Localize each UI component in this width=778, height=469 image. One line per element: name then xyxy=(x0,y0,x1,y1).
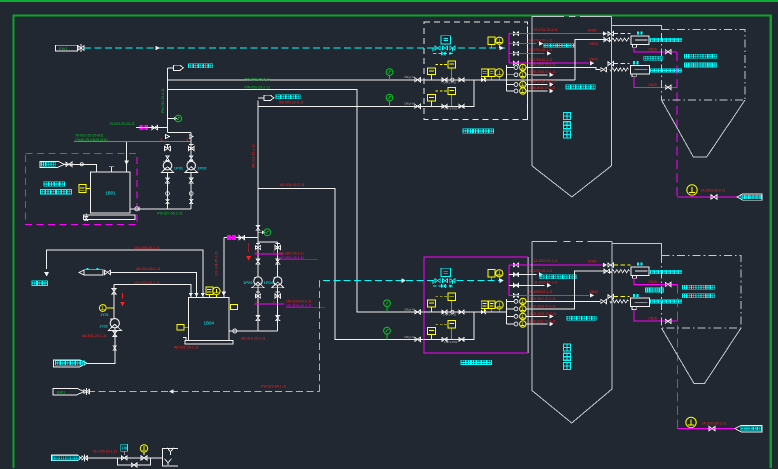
inlet line 3 xyxy=(114,285,191,298)
lance 2 drain (magenta) xyxy=(634,77,677,88)
white row8 stub xyxy=(533,90,548,92)
svg-text:AB-319-25-2-J1: AB-319-25-2-J1 xyxy=(241,336,266,340)
check valves above pumps xyxy=(190,133,192,162)
side instrument right xyxy=(230,305,237,310)
flag steam source (cyan filled) xyxy=(52,455,82,461)
side instrument left xyxy=(177,325,184,330)
svg-text:3UB-3208-70-1-J1: 3UB-3208-70-1-J1 xyxy=(530,304,556,308)
panel main pipe row 1 xyxy=(424,79,506,81)
svg-text:3UB-3011-70-2-J1: 3UB-3011-70-2-J1 xyxy=(530,86,556,90)
recirc riser into tank 1B04 xyxy=(223,238,225,298)
dosing hand pump instrument xyxy=(107,307,114,309)
magenta row1 to lance 1 xyxy=(509,33,605,35)
flow instrument cluster xyxy=(481,301,488,309)
svg-text:78-L005-Zb-1-J1: 78-L005-Zb-1-J1 xyxy=(93,450,118,454)
svg-text:1AP1-P02: 1AP1-P02 xyxy=(444,340,458,344)
lance 4 drain (magenta) xyxy=(634,309,678,321)
white outlet manifold xyxy=(506,299,508,324)
panel enclosure xyxy=(424,22,528,120)
filter box D row2 xyxy=(448,320,456,327)
panel enclosure xyxy=(424,257,528,353)
cyan lance 2 caption xyxy=(651,69,682,72)
flag to 3# boiler dosing xyxy=(174,65,184,70)
level cluster on tank 1B04 xyxy=(206,287,213,295)
green inline instrument pipe D xyxy=(384,327,391,334)
flag EW source (top left) xyxy=(56,45,78,51)
svg-text:DN50: DN50 xyxy=(588,260,597,264)
fill pipe to tank 1B01 xyxy=(64,164,96,172)
svg-text:PW-050-25-2-J1: PW-050-25-2-J1 xyxy=(245,86,271,90)
pipe C to boiler1 panel row2 xyxy=(258,105,424,107)
valve on drain main 2 xyxy=(709,426,715,431)
valve on drain main xyxy=(711,195,717,200)
magenta distribution manifold xyxy=(508,265,510,295)
svg-text:1A-3203-50-2-J1: 1A-3203-50-2-J1 xyxy=(702,422,727,426)
svg-text:EW1: EW1 xyxy=(59,46,68,51)
EW motor valve assembly xyxy=(441,268,451,276)
tank 1B01 xyxy=(90,172,130,213)
svg-text:DN15: DN15 xyxy=(590,42,598,46)
svg-text:3UB-3202-70-1-J1: 3UB-3202-70-1-J1 xyxy=(530,297,556,301)
cyan label to sootblower 2 xyxy=(540,275,576,279)
green inline instrument pipe C xyxy=(386,94,393,101)
sensor stub with green instrument xyxy=(168,118,175,120)
drain pump yellow 2 xyxy=(686,417,696,427)
svg-text:100-3203-40-2-J1: 100-3203-40-2-J1 xyxy=(286,304,312,308)
terminal strip line panel 1 xyxy=(527,27,529,120)
manifold takeoff valve xyxy=(509,43,522,45)
terminal strip line panel 2 xyxy=(527,257,529,353)
stub takeoff with flow glass xyxy=(507,308,514,310)
white row2 short xyxy=(509,274,537,276)
svg-text:JY01: JY01 xyxy=(101,313,109,317)
svg-text:4: 4 xyxy=(273,300,275,304)
flow instrument cluster xyxy=(481,69,488,77)
svg-text:(7#48-25-DN25-M11): (7#48-25-DN25-M11) xyxy=(75,138,108,142)
magenta row4 to lance 2 xyxy=(509,62,589,64)
magenta row3 short xyxy=(509,52,545,54)
svg-text:DN40: DN40 xyxy=(590,57,599,61)
panel main pipe row 2 with riser xyxy=(424,312,474,339)
white stub row1 supply to lance 4 xyxy=(533,300,600,302)
svg-text:1P01: 1P01 xyxy=(174,166,184,171)
drain pipe run xyxy=(86,457,163,459)
svg-text:AUB-3203-70-2-J1: AUB-3203-70-2-J1 xyxy=(530,312,557,316)
pump discharge header 2 xyxy=(258,241,278,243)
white stub row4 xyxy=(533,323,548,325)
filter box C row2 xyxy=(428,95,436,102)
yellow dashed link row1 xyxy=(435,296,448,298)
dosing skid boundary (magenta dashed box) xyxy=(26,154,138,225)
svg-text:EW1: EW1 xyxy=(57,390,65,394)
EW cyan dashed supply line to panel 1 xyxy=(84,47,436,49)
svg-text:1: 1 xyxy=(255,300,257,304)
svg-text:3UB-3702-70-1-J1: 3UB-3702-70-1-J1 xyxy=(530,63,556,67)
magenta drain main boiler2 (dashed) xyxy=(677,284,679,428)
valves above pumps 3/4 xyxy=(255,245,260,249)
EW dashed branch to panel 2 xyxy=(319,281,436,392)
tank vent xyxy=(111,167,113,172)
inlet line 2 from eductor xyxy=(110,272,196,297)
white stub row3 xyxy=(533,315,548,317)
svg-text:DN25: DN25 xyxy=(649,83,657,87)
line to 3# boiler flag 2 xyxy=(258,97,264,99)
yellow dashed link row2 xyxy=(435,90,448,92)
manifold takeoff valve xyxy=(509,274,522,276)
magenta row1 to lance 3 xyxy=(509,264,605,266)
metering pump JY xyxy=(110,319,119,328)
flue duct boiler1 to ESP1 xyxy=(611,26,661,30)
svg-text:1AP1-P02: 1AP1-P02 xyxy=(444,107,458,111)
green inline instrument pipe A xyxy=(386,69,393,76)
isolation valves above pumps xyxy=(165,146,171,150)
yellow dashed link row2 xyxy=(435,323,448,325)
svg-text:AB-003-25-1-J1: AB-003-25-1-J1 xyxy=(251,144,255,168)
stub takeoff with flow glass xyxy=(507,315,514,317)
flag to phase II condenser xyxy=(735,425,762,431)
green feedwater line xyxy=(74,141,190,143)
filter box D row2 xyxy=(448,87,456,94)
lance 1 drain (magenta) xyxy=(634,47,677,52)
white row7 stub xyxy=(533,84,548,86)
pump 1P04 xyxy=(274,277,282,285)
cyan label to sootblower xyxy=(544,44,575,48)
cyan lance 3 caption xyxy=(651,270,682,273)
sensor stub green instrument 2 xyxy=(258,231,262,233)
main distribution riser from pumps 1P03/04 xyxy=(257,101,259,277)
filter box B row1 xyxy=(448,61,456,68)
injection lance 1 xyxy=(631,36,649,45)
drain pump yellow xyxy=(687,185,697,195)
flag 1# boiler blowdown xyxy=(54,360,88,367)
magenta tie line lower xyxy=(255,303,285,305)
manifold takeoff valve xyxy=(509,52,522,54)
svg-text:1A-3203-70-4-J1: 1A-3203-70-4-J1 xyxy=(534,259,558,263)
filter box A row1 xyxy=(428,68,436,75)
svg-text:AB-005-25-3-J1: AB-005-25-3-J1 xyxy=(279,101,304,105)
magenta distribution manifold xyxy=(508,34,510,64)
injection lance 4 xyxy=(631,298,650,307)
manifold takeoff valve xyxy=(509,264,522,266)
svg-text:DN25: DN25 xyxy=(649,48,657,52)
tank 1B01 base xyxy=(84,215,135,220)
svg-text:DN40: DN40 xyxy=(590,290,599,294)
svg-text:100-003-65-1-J1: 100-003-65-1-J1 xyxy=(134,281,160,285)
drain funnel bracket xyxy=(163,449,179,467)
ESP 2 outline (dash-dot) xyxy=(662,256,742,328)
recirculation line with control valve to tank 1B04 xyxy=(224,237,258,239)
flag to 3# boiler dosing 2 xyxy=(264,95,274,100)
boiler 2 furnace outline xyxy=(532,241,557,243)
cyan lance 4 caption xyxy=(651,300,682,303)
level instrument LT xyxy=(79,185,86,193)
pipe D to boiler2 panel row2 xyxy=(258,189,424,340)
pipe row1 extension up to lance 1 supply xyxy=(507,79,576,81)
flow arrow on EW line xyxy=(156,46,159,50)
svg-text:AB-004-65-1-J1: AB-004-65-1-J1 xyxy=(136,267,161,271)
filter box C row2 xyxy=(428,328,436,335)
inlet valves row2 xyxy=(415,337,421,341)
manifold takeoff valve xyxy=(509,294,522,296)
green inline instrument pipe B xyxy=(384,300,391,307)
valve after flag xyxy=(82,456,88,460)
pump suction risers with valves xyxy=(167,173,169,209)
instrument on EW line xyxy=(488,37,495,45)
svg-text:AB-002-25-1-J1: AB-002-25-1-J1 xyxy=(174,345,199,349)
magenta control valve pair xyxy=(140,125,144,130)
pump 1P01 xyxy=(163,161,172,170)
svg-text:AUB-3703-70-2-J1: AUB-3703-70-2-J1 xyxy=(530,79,557,83)
svg-text:DN50: DN50 xyxy=(588,28,597,32)
line to 3# boiler flag xyxy=(168,67,174,69)
valve on fill line xyxy=(66,162,72,167)
svg-text:1AP1-P02: 1AP1-P02 xyxy=(443,80,457,84)
svg-text:AB-001-25-1-J1: AB-001-25-1-J1 xyxy=(82,334,107,338)
panel main pipe row 2 with riser xyxy=(424,80,474,107)
EW motor valve assembly xyxy=(441,36,451,44)
svg-text:CM(y)-M: CM(y)-M xyxy=(404,75,415,79)
svg-text:100-308-50-1-J1: 100-308-50-1-J1 xyxy=(134,246,160,250)
tank inlet downpipe from green line xyxy=(126,142,128,172)
cyan label to furnace port 2 xyxy=(567,316,596,320)
magenta drain main boiler1 xyxy=(676,52,678,197)
flag to phase II LP heater xyxy=(737,194,762,200)
svg-text:PW-327-65-2-J1: PW-327-65-2-J1 xyxy=(157,211,183,215)
manifold takeoff valve xyxy=(509,284,522,286)
panel main pipe row 1 xyxy=(424,311,506,313)
svg-text:1B04: 1B04 xyxy=(204,320,215,325)
label qudigou xyxy=(32,281,47,286)
stub takeoff with flow glass xyxy=(507,84,514,86)
inlet valves row2 xyxy=(415,104,421,108)
injection lance 2 xyxy=(631,66,650,75)
white row6 stub xyxy=(533,74,548,76)
svg-text:1B01: 1B01 xyxy=(105,191,116,196)
motor valve with actuator xyxy=(121,456,127,460)
svg-text:PW-050-25-2-J1: PW-050-25-2-J1 xyxy=(161,88,165,113)
stub takeoff with flow glass xyxy=(507,74,514,76)
cyan label jet water 2 xyxy=(646,288,664,292)
flag EW source 2 xyxy=(53,388,84,395)
stub takeoff with flow glass xyxy=(507,67,514,69)
svg-text:4: 4 xyxy=(273,250,275,254)
svg-text:100-004-25-1-J1: 100-004-25-1-J1 xyxy=(215,251,219,276)
svg-text:1P03: 1P03 xyxy=(243,280,253,285)
suction header from tank 1B04 xyxy=(229,330,278,332)
valve with yellow instrument xyxy=(141,456,147,460)
boiler 1 furnace outline xyxy=(532,16,564,18)
magenta row2 short xyxy=(509,43,537,45)
svg-text:PW-050-25-2-J1: PW-050-25-2-J1 xyxy=(245,77,271,81)
tank 1B04 xyxy=(188,297,229,340)
tank outlet pipe to pump suction header xyxy=(130,208,191,210)
valve on EW line xyxy=(78,46,84,50)
filter box B row1 xyxy=(448,293,456,300)
manifold takeoff valve xyxy=(509,62,522,64)
yellow dashed link row1 xyxy=(435,64,448,66)
tank 1B04 base xyxy=(185,341,233,344)
pipe A to boiler1 panel xyxy=(168,79,425,81)
panel 2 caption xyxy=(461,360,491,364)
ESP 2 caption xyxy=(683,285,715,289)
inlet line 1 (drain overflow) xyxy=(47,250,203,298)
tank 1B04 drain xyxy=(183,337,186,340)
magenta tie line upper xyxy=(255,253,284,255)
white stub row2 supply to lance 3 xyxy=(533,271,607,309)
bypass loop with valve xyxy=(118,458,151,465)
svg-text:1P02: 1P02 xyxy=(197,166,207,171)
red drain arrow xyxy=(248,243,250,252)
svg-text:DN25: DN25 xyxy=(649,280,657,284)
pipe with valve to pump header xyxy=(136,127,168,129)
instrument on EW line xyxy=(488,270,495,278)
metering branch riser xyxy=(113,285,115,319)
top window green strip xyxy=(0,0,778,2)
white row3 short xyxy=(509,284,545,286)
svg-text:AB-006-40-2-J1: AB-006-40-2-J1 xyxy=(280,183,305,187)
svg-text:CM(y)-M: CM(y)-M xyxy=(404,335,415,339)
svg-text:100-3202-40-2-J1: 100-3202-40-2-J1 xyxy=(279,256,305,260)
svg-text:1B-3204-10-1-J1: 1B-3204-10-1-J1 xyxy=(534,281,558,285)
boiler 2 label xyxy=(564,344,571,369)
filter box A row1 xyxy=(428,300,436,307)
skid label text xyxy=(44,182,64,187)
svg-text:1P04: 1P04 xyxy=(264,280,274,285)
flue duct boiler2 to ESP2 xyxy=(612,244,662,256)
stub takeoff with flow glass xyxy=(507,323,514,325)
svg-text:1AP1-P02: 1AP1-P02 xyxy=(443,313,457,317)
valve on EW2 xyxy=(84,389,90,393)
svg-text:78-001-25-25-M11: 78-001-25-25-M11 xyxy=(75,133,104,137)
flag chemical fill inlet xyxy=(40,161,64,167)
cyan label jet water xyxy=(644,56,662,60)
tank inlet arrows xyxy=(189,293,192,296)
manifold takeoff valve xyxy=(509,33,522,35)
pump discharge header xyxy=(168,132,192,134)
injection lance 3 xyxy=(631,267,649,276)
pump outlet down to flag xyxy=(87,328,115,364)
svg-text:DN25: DN25 xyxy=(649,317,657,321)
tank drain valve xyxy=(85,213,87,217)
red arrow on branch xyxy=(122,293,124,299)
inlet valves row1 xyxy=(415,310,421,314)
svg-text:78-003-25-25-J1: 78-003-25-25-J1 xyxy=(109,122,135,126)
EW dashed inside panel 2 xyxy=(457,280,504,282)
EW2 dashed line lower xyxy=(88,391,319,393)
svg-text:CM(y)-M: CM(y)-M xyxy=(404,102,415,106)
svg-text:1A-3203-50-2-J1: 1A-3203-50-2-J1 xyxy=(701,189,726,193)
ESP 1 outline (dash-dot) xyxy=(662,30,746,101)
white outlet manifold xyxy=(506,65,508,91)
stub takeoff with flow glass xyxy=(507,300,514,302)
svg-text:FA-3702-70-4-J1: FA-3702-70-4-J1 xyxy=(534,28,558,32)
lance 3 drain (magenta) xyxy=(634,278,678,284)
pipe B to boiler2 panel xyxy=(168,89,425,312)
svg-text:CM(y)-M: CM(y)-M xyxy=(404,307,415,311)
inlet valves row1 xyxy=(415,78,421,82)
ESP 1 caption xyxy=(685,54,717,58)
suction risers pumps 3/4 xyxy=(257,285,259,331)
svg-text:3UB-3211-70-2-J1: 3UB-3211-70-2-J1 xyxy=(530,319,556,323)
boiler 1 label xyxy=(564,113,571,138)
panel 1 caption xyxy=(463,129,493,133)
svg-text:PW-323-50-1-J1: PW-323-50-1-J1 xyxy=(261,384,287,388)
stub takeoff with flow glass xyxy=(507,90,514,92)
pump 1P02 xyxy=(187,161,196,170)
magenta row4 to lance 4 xyxy=(509,294,589,296)
pump 1P03 xyxy=(254,277,262,285)
svg-text:JY02: JY02 xyxy=(100,325,108,329)
svg-text:3UB-3708-70-1-J1: 3UB-3708-70-1-J1 xyxy=(530,70,556,74)
cyan label to furnace port xyxy=(566,85,595,89)
eductor mixer xyxy=(79,270,84,275)
cyan lance 1 caption xyxy=(651,38,682,41)
svg-text:1: 1 xyxy=(255,250,257,254)
pump discharge riser xyxy=(167,68,169,133)
white row5 supply to lance 2 xyxy=(533,68,600,70)
